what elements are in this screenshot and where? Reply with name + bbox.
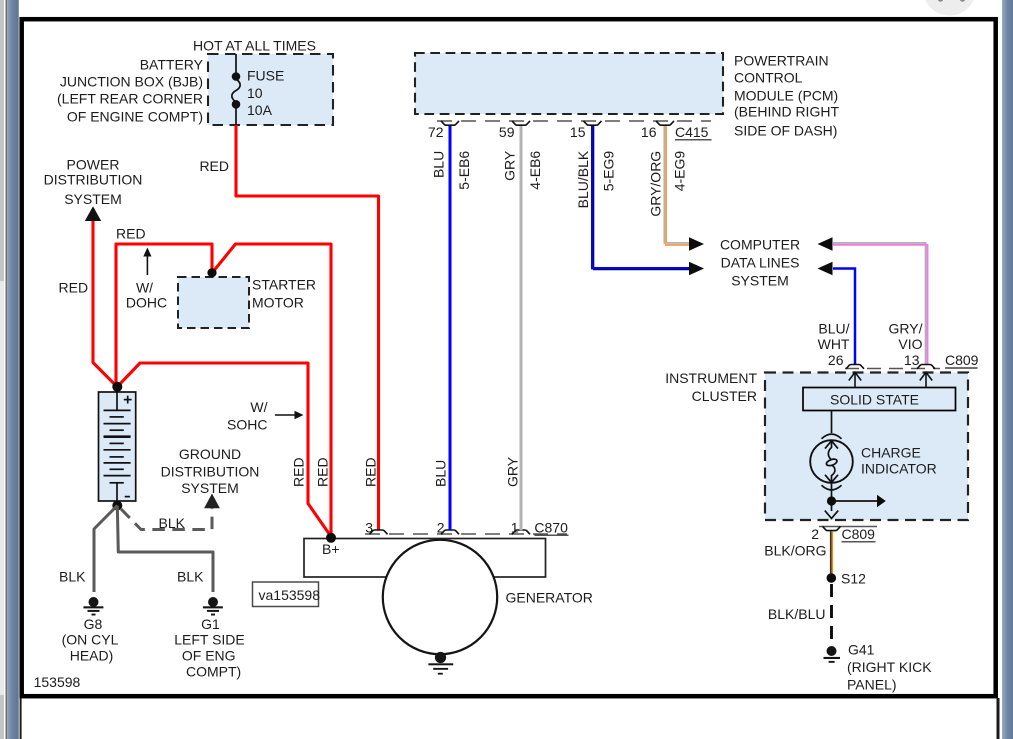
- svg-text:RED: RED: [363, 457, 379, 487]
- svg-text:SYSTEM: SYSTEM: [64, 191, 122, 207]
- svg-text:GROUND: GROUND: [179, 446, 241, 462]
- svg-text:CONTROL: CONTROL: [734, 70, 803, 86]
- svg-text:G1: G1: [201, 616, 220, 632]
- svg-text:C809: C809: [945, 352, 979, 368]
- svg-text:B+: B+: [322, 541, 340, 557]
- svg-text:BATTERY: BATTERY: [140, 57, 204, 73]
- svg-text:WHT: WHT: [818, 336, 850, 352]
- svg-text:15: 15: [570, 124, 586, 140]
- svg-text:5-EG9: 5-EG9: [601, 151, 617, 192]
- svg-text:(LEFT REAR CORNER: (LEFT REAR CORNER: [57, 91, 203, 107]
- svg-text:C809: C809: [842, 526, 876, 542]
- svg-text:(RIGHT KICK: (RIGHT KICK: [847, 659, 932, 675]
- svg-text:C415: C415: [675, 124, 709, 140]
- svg-text:RED: RED: [315, 457, 331, 487]
- svg-text:POWER: POWER: [67, 156, 120, 172]
- svg-text:BLU: BLU: [433, 460, 449, 487]
- svg-text:GRY/ORG: GRY/ORG: [648, 151, 664, 217]
- svg-text:va153598: va153598: [259, 587, 321, 603]
- svg-text:4-EB6: 4-EB6: [527, 151, 543, 190]
- svg-text:HEAD): HEAD): [70, 648, 114, 664]
- svg-text:FUSE: FUSE: [247, 68, 284, 84]
- svg-text:HOT AT ALL TIMES: HOT AT ALL TIMES: [193, 38, 316, 54]
- svg-text:CHARGE: CHARGE: [861, 445, 921, 461]
- svg-text:(ON CYL: (ON CYL: [62, 632, 119, 648]
- svg-text:INSTRUMENT: INSTRUMENT: [665, 370, 757, 386]
- svg-text:SOLID STATE: SOLID STATE: [830, 392, 919, 408]
- svg-text:RED: RED: [116, 226, 146, 242]
- svg-text:COMPT): COMPT): [186, 664, 241, 680]
- svg-text:72: 72: [428, 124, 444, 140]
- svg-text:16: 16: [641, 124, 657, 140]
- svg-text:SYSTEM: SYSTEM: [181, 480, 239, 496]
- svg-text:POWERTRAIN: POWERTRAIN: [734, 52, 829, 68]
- svg-text:(BEHIND RIGHT: (BEHIND RIGHT: [734, 104, 839, 120]
- svg-text:C870: C870: [534, 519, 568, 535]
- svg-text:DISTRIBUTION: DISTRIBUTION: [161, 464, 260, 480]
- svg-text:W/: W/: [136, 279, 153, 295]
- svg-text:SYSTEM: SYSTEM: [731, 273, 789, 289]
- svg-text:153598: 153598: [34, 674, 81, 690]
- svg-text:DISTRIBUTION: DISTRIBUTION: [44, 171, 143, 187]
- svg-text:MOTOR: MOTOR: [252, 295, 304, 311]
- svg-text:BLK: BLK: [177, 569, 204, 585]
- svg-text:OF ENG: OF ENG: [182, 648, 236, 664]
- svg-text:JUNCTION BOX (BJB): JUNCTION BOX (BJB): [60, 74, 203, 90]
- svg-text:RED: RED: [291, 457, 307, 487]
- svg-text:GRY: GRY: [502, 150, 518, 181]
- svg-text:GENERATOR: GENERATOR: [506, 590, 593, 606]
- svg-text:BLU: BLU: [431, 151, 447, 178]
- svg-text:10A: 10A: [247, 102, 273, 118]
- svg-text:BLK: BLK: [59, 569, 86, 585]
- svg-text:10: 10: [247, 85, 263, 101]
- svg-text:INDICATOR: INDICATOR: [861, 461, 937, 477]
- svg-text:G8: G8: [84, 616, 103, 632]
- svg-text:DOHC: DOHC: [126, 294, 167, 310]
- svg-text:26: 26: [828, 352, 844, 368]
- svg-text:4-EG9: 4-EG9: [672, 151, 688, 192]
- svg-text:STARTER: STARTER: [252, 277, 316, 293]
- svg-text:CLUSTER: CLUSTER: [692, 388, 757, 404]
- svg-text:1: 1: [511, 519, 519, 535]
- svg-text:2: 2: [437, 519, 445, 535]
- svg-text:VIO: VIO: [898, 336, 922, 352]
- svg-text:G41: G41: [848, 642, 875, 658]
- svg-text:3: 3: [365, 519, 373, 535]
- svg-text:DATA LINES: DATA LINES: [721, 255, 800, 271]
- svg-text:13: 13: [904, 352, 920, 368]
- svg-text:PANEL): PANEL): [847, 677, 897, 693]
- svg-text:COMPUTER: COMPUTER: [720, 237, 800, 253]
- svg-text:59: 59: [499, 124, 515, 140]
- svg-text:RED: RED: [199, 158, 229, 174]
- svg-text:BLK/BLU: BLK/BLU: [768, 606, 826, 622]
- svg-text:BLU/BLK: BLU/BLK: [575, 150, 591, 208]
- svg-text:S12: S12: [841, 570, 866, 586]
- svg-text:GRY: GRY: [505, 456, 521, 487]
- svg-text:BLU/: BLU/: [818, 321, 849, 337]
- svg-text:SOHC: SOHC: [227, 416, 267, 432]
- svg-text:MODULE (PCM): MODULE (PCM): [734, 87, 838, 103]
- svg-text:5-EB6: 5-EB6: [456, 151, 472, 190]
- svg-text:RED: RED: [59, 279, 89, 295]
- svg-text:OF ENGINE COMPT): OF ENGINE COMPT): [67, 109, 203, 125]
- svg-text:BLK/ORG: BLK/ORG: [764, 542, 826, 558]
- svg-text:GRY/: GRY/: [889, 321, 923, 337]
- svg-text:W/: W/: [250, 399, 267, 415]
- svg-text:SIDE OF DASH): SIDE OF DASH): [734, 122, 837, 138]
- svg-text:BLK: BLK: [159, 515, 186, 531]
- svg-text:2: 2: [811, 526, 819, 542]
- svg-text:LEFT SIDE: LEFT SIDE: [174, 632, 245, 648]
